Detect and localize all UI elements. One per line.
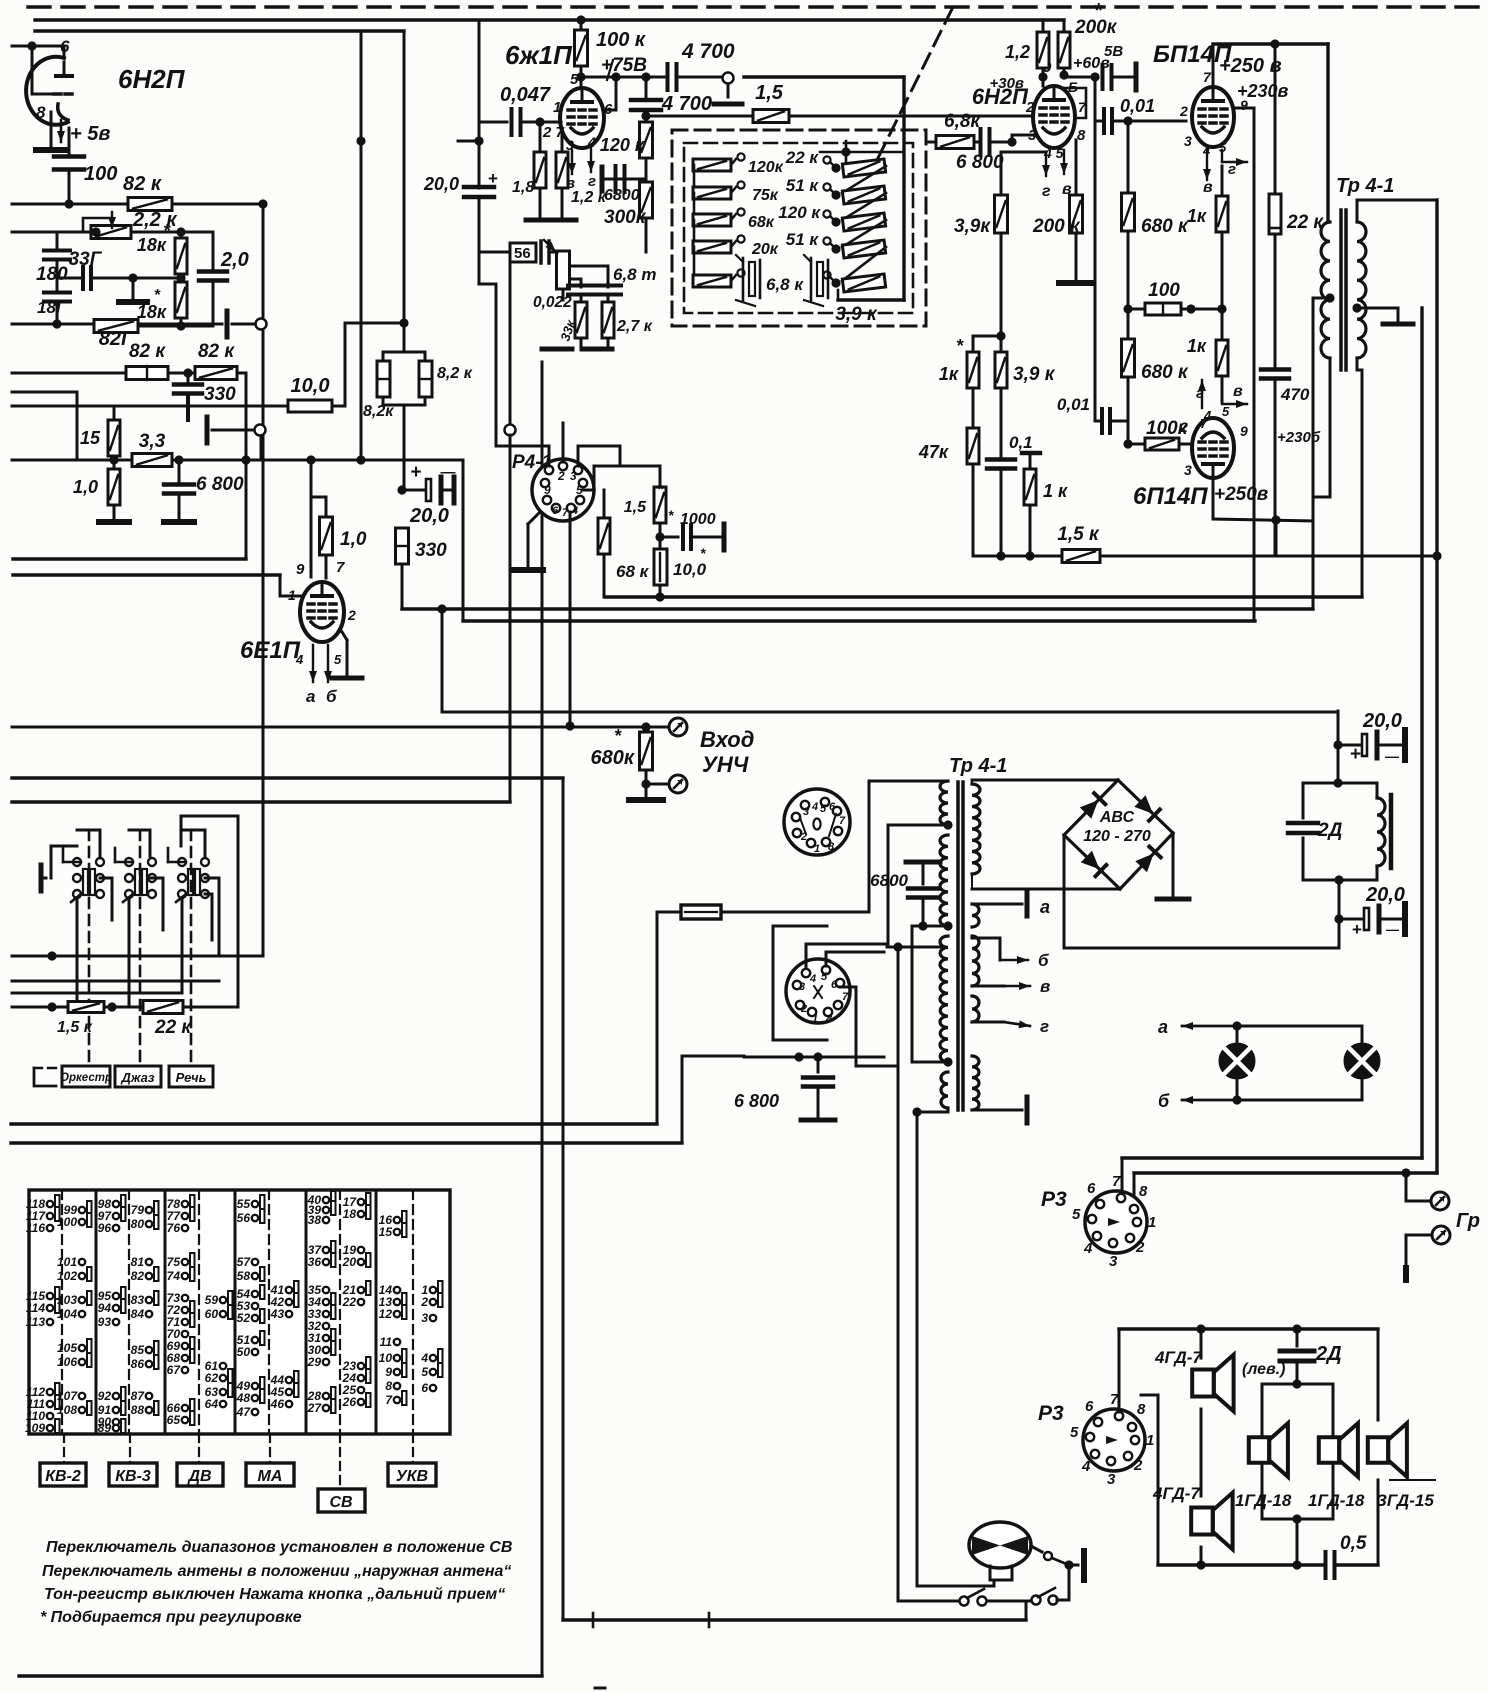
long vertical x563 [562, 778, 565, 1620]
svg-text:9: 9 [1240, 423, 1248, 439]
svg-text:УНЧ: УНЧ [702, 752, 749, 777]
junction 3,9к bottom [996, 331, 1005, 340]
svg-text:—: — [1386, 922, 1399, 937]
secondary bottom down x1362 [1356, 358, 1359, 370]
svg-text:8: 8 [1137, 1401, 1146, 1418]
capacitor 4700 shunt [645, 77, 648, 97]
fuse [657, 911, 681, 914]
svg-text:3: 3 [803, 806, 809, 818]
capacitor 180 upper [56, 232, 59, 248]
resistor 3,9к lower [1000, 336, 1003, 352]
svg-text:20к: 20к [751, 241, 779, 258]
svg-text:7: 7 [562, 507, 569, 519]
wire cap100 down to bus [68, 170, 71, 204]
capacitor 0,1 [1000, 420, 1003, 459]
svg-text:27: 27 [307, 1401, 323, 1415]
resistor 1к lower [1221, 309, 1224, 340]
potentiometer 2,2к [91, 226, 131, 239]
capacitor 1000 star [655, 532, 664, 541]
cathode wire with +5В arrow [50, 112, 53, 148]
button box blank [34, 1068, 56, 1086]
junction x898 y947 [893, 942, 902, 951]
svg-text:1: 1 [1146, 1432, 1154, 1449]
band label ДВ [198, 1434, 200, 1463]
svg-text:12: 12 [379, 1307, 393, 1321]
heater arrows bottom tube [1201, 380, 1203, 408]
resistor 15 [109, 455, 118, 464]
svg-text:106: 106 [57, 1355, 77, 1369]
resistor 18к* upper [180, 232, 183, 239]
svg-text:2: 2 [1025, 99, 1035, 116]
resistor 47к [972, 404, 975, 428]
button Джаз [115, 1066, 161, 1087]
svg-text:*: * [1094, 0, 1103, 22]
capacitor 4700 series [666, 64, 670, 90]
band label КВ-2 [63, 1434, 65, 1463]
bottom speaker bus [1158, 1563, 1323, 1566]
wire 2,2к to 18к [131, 231, 181, 234]
left hook of y621 up to y460 [462, 460, 465, 621]
primary tap riser x1313 [1312, 298, 1315, 609]
phono socket top [784, 789, 850, 855]
svg-text:52: 52 [237, 1311, 251, 1325]
svg-text:20,0: 20,0 [1365, 884, 1405, 906]
long vertical x542 [541, 362, 544, 1676]
resistor 680к upper [1127, 121, 1130, 194]
wire 3,3 to 6800 [172, 459, 249, 462]
svg-text:93: 93 [98, 1315, 112, 1329]
svg-text:6 800: 6 800 [956, 152, 1004, 173]
resistor 82к top [128, 198, 172, 211]
tone register group 1 [73, 858, 81, 866]
ground bars under tone caps [542, 347, 572, 352]
svg-text:б: б [326, 687, 337, 706]
tone resistors right column [823, 156, 830, 163]
svg-text:г: г [1040, 1017, 1049, 1036]
svg-text:+75В: +75В [601, 55, 647, 76]
socket Р3 first [1085, 1191, 1147, 1253]
svg-text:10,0: 10,0 [291, 375, 330, 397]
dashed top border [28, 5, 1488, 8]
svg-text:113: 113 [26, 1315, 45, 1329]
button Речь [169, 1066, 213, 1087]
wire socket2 pin1 to net [1135, 1439, 1148, 1441]
wire pin8 socket2 [1131, 1420, 1133, 1427]
svg-text:АВС: АВС [1099, 809, 1135, 826]
bus corner y1173 [1134, 1171, 1437, 1174]
capacitor 6,8т [595, 284, 621, 288]
svg-text:1: 1 [812, 1013, 818, 1025]
matrix dashed dividers [61, 1190, 63, 1434]
wire dashed tick [1390, 1479, 1435, 1481]
svg-text:101: 101 [57, 1255, 77, 1269]
svg-text:СВ: СВ [329, 1494, 352, 1511]
ground of cathode [36, 147, 66, 153]
svg-text:4ГД-7: 4ГД-7 [1154, 1348, 1203, 1367]
bridge dc out down [1063, 835, 1066, 948]
arrows pins 3 4 heater [571, 150, 573, 174]
motor neck [990, 1566, 1012, 1580]
resistor 100 horizontal [1123, 304, 1132, 313]
svg-text:100 к: 100 к [596, 29, 646, 51]
wire top bus 2 [35, 29, 404, 32]
svg-text:1: 1 [1148, 1214, 1156, 1231]
svg-text:—: — [1385, 748, 1399, 764]
svg-text:1,0: 1,0 [340, 529, 367, 550]
plate bar of 6Н2П [56, 74, 72, 78]
speaker ЗГД-15 [1368, 1437, 1388, 1463]
svg-text:2,0: 2,0 [220, 249, 249, 271]
svg-text:22 к: 22 к [154, 1017, 192, 1038]
capacitor 100 [68, 128, 71, 153]
wire 82к to corner x246 [237, 372, 246, 375]
svg-text:4 700: 4 700 [681, 40, 735, 63]
svg-text:108: 108 [57, 1403, 77, 1417]
ground under 680к [645, 784, 648, 798]
primary tap [1325, 293, 1334, 302]
secondary top loop [1356, 200, 1359, 222]
band label КВ-3 [129, 1434, 131, 1463]
svg-text:92: 92 [98, 1389, 112, 1403]
secondary tap to ground [1352, 303, 1361, 312]
svg-text:Вход: Вход [700, 727, 754, 752]
svg-text:в: в [566, 175, 575, 192]
svg-text:6: 6 [421, 1381, 428, 1395]
bridge diode 2 [1118, 780, 1173, 833]
register top rect [77, 830, 100, 856]
wire 8,2к down [403, 405, 406, 489]
svg-text:Джаз: Джаз [121, 1070, 155, 1085]
svg-text:+250 в: +250 в [1219, 55, 1282, 77]
resistor 1к star [973, 335, 1001, 338]
ring stub to y460 [260, 435, 263, 460]
wire y323 link [345, 322, 404, 325]
wire bus y392 [12, 391, 77, 394]
primary winding lower [940, 936, 948, 1062]
svg-text:Переключатель диапазонов устан: Переключатель диапазонов установлен в по… [46, 1539, 512, 1556]
svg-text:г: г [1196, 385, 1204, 402]
svg-text:0,1: 0,1 [1009, 433, 1033, 452]
wire 479 to 56 box [479, 251, 510, 254]
bus y981 [12, 980, 219, 983]
resistor 1,2к [561, 131, 564, 152]
bus y956 [12, 955, 263, 958]
tone register group 2 [125, 858, 133, 866]
socket Р4-1 [532, 459, 594, 521]
svg-text:51 к: 51 к [786, 176, 820, 195]
resistor 18к lower [180, 274, 183, 284]
resistor 1,5к [1062, 550, 1100, 563]
svg-text:1,5: 1,5 [624, 499, 647, 516]
svg-text:18Г: 18Г [37, 298, 68, 317]
svg-text:+250в: +250в [1214, 484, 1268, 505]
svg-text:Оркестр: Оркестр [60, 1072, 112, 1084]
svg-text:89: 89 [98, 1421, 112, 1435]
capacitor 2,0 [212, 232, 215, 268]
svg-text:5: 5 [1072, 1206, 1081, 1223]
input jack lower [646, 783, 668, 786]
svg-text:67: 67 [167, 1363, 182, 1377]
mains riser 2 [681, 1056, 684, 1143]
svg-text:9: 9 [296, 561, 305, 578]
svg-text:(лев.): (лев.) [1242, 1361, 1285, 1378]
svg-text:в: в [1203, 179, 1213, 196]
tone switch bars left [749, 262, 755, 296]
svg-text:7: 7 [842, 991, 849, 1003]
anode wire to 4700 node [581, 76, 646, 79]
wire 2,2к top joins 2.0 [181, 231, 213, 234]
winding б в [972, 936, 979, 986]
primary bottom tap [943, 1057, 952, 1066]
svg-text:3,9к: 3,9к [954, 216, 991, 237]
motor terminal contact [1031, 1546, 1042, 1552]
svg-text:56: 56 [237, 1211, 251, 1225]
svg-text:120 - 270: 120 - 270 [1083, 828, 1151, 845]
svg-text:1,5 к: 1,5 к [1057, 524, 1100, 545]
bus y993 [12, 992, 182, 995]
junction x1128 y121 [1123, 116, 1132, 125]
svg-text:120 к: 120 к [600, 135, 645, 155]
svg-text:4: 4 [811, 801, 818, 813]
svg-text:8: 8 [1077, 127, 1086, 144]
svg-text:3: 3 [1184, 133, 1192, 149]
screen wire pin6 [603, 109, 616, 112]
tone register group 3 [178, 858, 186, 866]
svg-text:680к: 680к [590, 747, 634, 769]
resistor 680к lower [1127, 309, 1130, 340]
resistor 3,9к cathode [1000, 152, 1003, 196]
svg-text:10: 10 [379, 1351, 393, 1365]
svg-text:58: 58 [237, 1269, 251, 1283]
svg-text:*: * [614, 726, 622, 746]
resistor 1,0 right [311, 496, 326, 499]
input jack upper [669, 718, 687, 736]
wire bus y232 [12, 231, 96, 234]
vertical x917 long [916, 1112, 919, 1580]
svg-text:2Д: 2Д [1317, 820, 1343, 841]
electrolytic 20,0 horizontal [402, 489, 424, 492]
pentode БП14П bottom [1192, 418, 1234, 478]
output transformer primary winding [1321, 222, 1330, 358]
svg-text:1: 1 [814, 843, 820, 855]
grid wire into pin 3 [1011, 135, 1014, 142]
ground bar shared [548, 218, 576, 223]
socket Р3 second [1083, 1409, 1145, 1471]
vertical x442 down to feedback line [441, 609, 444, 712]
svg-text:3: 3 [570, 469, 577, 483]
svg-text:3: 3 [1107, 1471, 1116, 1488]
svg-text:1,0: 1,0 [73, 477, 98, 497]
electrolytic 20,0 on x479 [464, 185, 494, 190]
svg-text:8: 8 [828, 841, 835, 853]
svg-text:120к: 120к [748, 159, 784, 176]
bus corner y1158 [1122, 1156, 1422, 1159]
wire top to 1,5 [619, 446, 622, 466]
wire top bus 1 [35, 18, 1064, 21]
wire rail to primary [1326, 44, 1329, 222]
svg-text:+: + [1352, 920, 1362, 939]
svg-text:2,7 к: 2,7 к [616, 318, 653, 335]
resistor 22к register [143, 1001, 183, 1014]
bottom edge mark [595, 1687, 605, 1690]
svg-text:ДВ: ДВ [186, 1468, 211, 1485]
capacitor at 56 [539, 241, 543, 263]
speaker feed left [1141, 1394, 1158, 1397]
svg-text:6,8 к: 6,8 к [766, 275, 804, 294]
capacitor 2Д [1288, 821, 1318, 826]
svg-text:УКВ: УКВ [396, 1468, 428, 1485]
secondary HV winding [972, 784, 980, 874]
svg-text:4: 4 [420, 1351, 428, 1365]
svg-text:6: 6 [1085, 1398, 1094, 1415]
svg-text:5: 5 [1219, 140, 1227, 155]
screen wire pin9 down x1254 [1233, 107, 1254, 110]
vertical from +60 node [1094, 77, 1097, 121]
nested bus y597 [605, 595, 1362, 598]
svg-text:+: + [410, 462, 421, 483]
wire bus y324 [12, 323, 222, 326]
svg-text:51 к: 51 к [786, 230, 820, 249]
vertical x263 long [262, 204, 265, 956]
dashed diagonal to tone box [878, 9, 952, 158]
svg-text:300к: 300к [604, 207, 647, 228]
svg-text:47к: 47к [918, 442, 949, 462]
coil core bar [1389, 795, 1394, 868]
svg-text:18: 18 [343, 1207, 357, 1221]
svg-text:15: 15 [80, 428, 101, 448]
electrolytic 20,0 upper [1338, 744, 1360, 747]
long bus y1124 [11, 1122, 657, 1125]
resistor 100к anode [580, 20, 583, 32]
junction row y1057 [744, 1056, 884, 1059]
capacitor 33Г [57, 277, 80, 280]
capacitor to terminal 5В [1064, 76, 1098, 79]
svg-text:2: 2 [1179, 103, 1188, 119]
svg-text:6800: 6800 [870, 871, 908, 890]
wire x479 bottom corner [479, 283, 496, 286]
wire 82Г left joins bus [52, 319, 61, 328]
input line y727 [12, 726, 668, 729]
svg-text:0,047: 0,047 [500, 84, 551, 106]
trimmer 56 box [510, 243, 536, 262]
triode 6Н2П-2 [1033, 86, 1075, 148]
svg-text:59: 59 [205, 1293, 219, 1307]
svg-text:26: 26 [342, 1395, 357, 1409]
svg-text:46: 46 [270, 1397, 285, 1411]
dial lamp 1 [1236, 1026, 1239, 1100]
svg-text:* Подбирается при регулировке: * Подбирается при регулировке [40, 1609, 302, 1626]
svg-text:4 700: 4 700 [661, 93, 712, 115]
primary winding upper [940, 781, 948, 825]
svg-text:102: 102 [57, 1269, 77, 1283]
svg-text:б: б [1158, 1091, 1170, 1111]
svg-text:8,2к: 8,2к [363, 403, 394, 420]
svg-text:4ГД-7: 4ГД-7 [1152, 1484, 1201, 1503]
amplifier block border left [478, 21, 481, 188]
resistor 1,5 star [659, 466, 662, 487]
svg-text:2Д: 2Д [1315, 1343, 1342, 1365]
svg-text:б: б [1038, 951, 1049, 970]
wire bus y559 [13, 557, 246, 560]
svg-text:65: 65 [167, 1413, 181, 1427]
svg-text:82 к: 82 к [123, 173, 162, 195]
pentode БП14П top [1192, 87, 1234, 147]
bottom bus y556 [973, 555, 1064, 558]
svg-text:75к: 75к [752, 187, 779, 204]
wire 18к bottom to 82Г [181, 325, 213, 328]
svg-text:103: 103 [57, 1293, 77, 1307]
svg-text:105: 105 [57, 1341, 77, 1355]
resistor 22к right [1274, 44, 1277, 196]
svg-text:6: 6 [829, 801, 836, 813]
capacitor 6800 mains upper [922, 863, 924, 865]
wire 330 bottom to bus [437, 604, 446, 613]
svg-text:7: 7 [839, 815, 846, 827]
svg-text:0,5: 0,5 [1340, 1533, 1367, 1554]
screen wire bottom tube to x1254 [1233, 439, 1254, 441]
feedback line y712 [442, 711, 1338, 714]
svg-text:68 к: 68 к [616, 562, 650, 581]
svg-text:20,0: 20,0 [409, 505, 449, 527]
speaker net top wire [1119, 1327, 1378, 1330]
svg-text:680 к: 680 к [1141, 216, 1189, 237]
tone box bottom wire [837, 290, 840, 300]
output transformer core [1339, 210, 1343, 370]
svg-text:0,01: 0,01 [1120, 96, 1155, 116]
svg-text:а: а [1158, 1017, 1168, 1037]
bridge ground [1172, 833, 1175, 897]
svg-text:6 800: 6 800 [734, 1091, 779, 1111]
svg-text:36: 36 [308, 1255, 322, 1269]
mains terminal bar [1081, 1551, 1087, 1580]
svg-text:+30в: +30в [989, 75, 1024, 92]
primary tap 1 [943, 820, 952, 829]
svg-text:Тр 4-1: Тр 4-1 [949, 755, 1007, 777]
vertical through 4ГД-7 [1200, 1409, 1203, 1496]
svg-text:4: 4 [809, 973, 816, 985]
electrolytic 20,0 lower [1334, 914, 1343, 923]
capacitor 330 between [168, 372, 195, 375]
svg-text:47: 47 [236, 1405, 252, 1419]
capacitor 6800 coupling2 [979, 129, 983, 155]
right hook of y621 up to anode bus [1253, 556, 1256, 621]
svg-text:*: * [163, 221, 171, 241]
wire pin5 to cathode res [1001, 151, 1046, 154]
register wiring rect [51, 846, 77, 878]
grid wire 6Е1П [279, 575, 282, 596]
wire socket to x887 [826, 951, 887, 953]
resistor 1,2 plate [1042, 20, 1045, 32]
long bus y1143 [11, 1141, 682, 1144]
svg-text:Гр: Гр [1456, 1210, 1480, 1232]
capacitor 180 lower [56, 259, 59, 291]
resistor 1к lower leg [1022, 451, 1040, 456]
svg-text:4: 4 [571, 505, 578, 517]
svg-text:*: * [668, 507, 674, 523]
fuse riser [656, 912, 659, 1124]
capacitor 6800 coupling [600, 167, 605, 191]
svg-text:1 к: 1 к [1043, 481, 1068, 501]
svg-text:114: 114 [26, 1301, 45, 1315]
midrange loop [1262, 1383, 1333, 1386]
svg-text:5: 5 [1222, 404, 1230, 419]
wires from selector down [840, 986, 856, 989]
resistor 82к mid-right [195, 367, 237, 380]
svg-text:Речь: Речь [176, 1070, 207, 1085]
vertical x361 [360, 31, 363, 460]
svg-text:5: 5 [821, 971, 828, 983]
svg-text:7: 7 [1203, 69, 1212, 85]
